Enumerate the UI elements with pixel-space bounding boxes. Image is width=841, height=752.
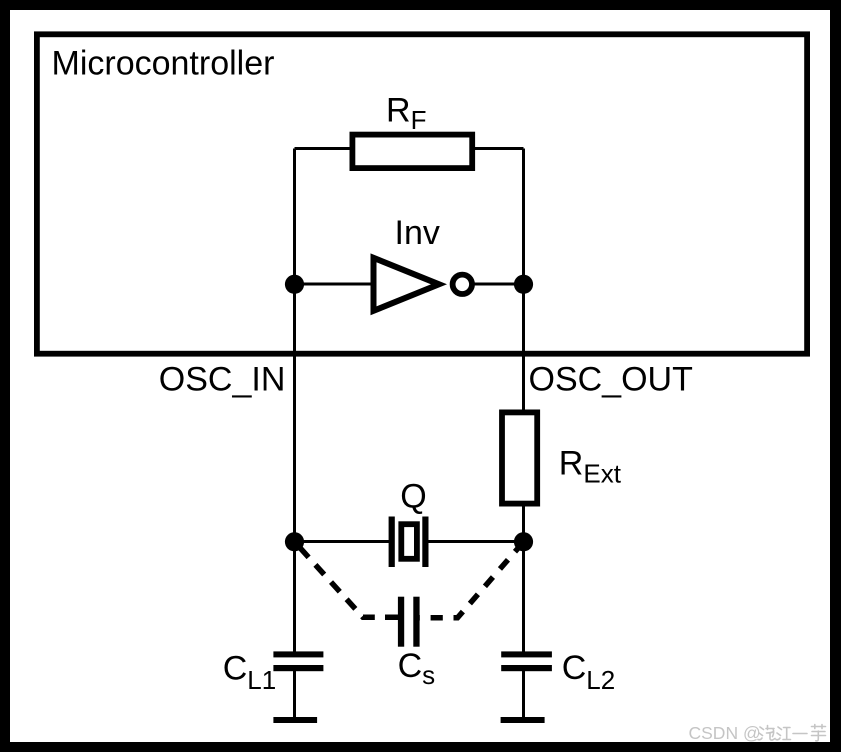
node: OSC_IN external junction (285, 532, 304, 551)
wire: CL1 to ground (293, 671, 296, 718)
capacitor CS left plate (398, 597, 404, 647)
svg-text:CSDN @: CSDN @ (689, 723, 761, 743)
wire: inverter output (474, 283, 524, 286)
node: OSC_OUT internal junction (514, 275, 533, 294)
watermark CJK glyphs (758, 725, 826, 741)
capacitor CL1 bottom plate (273, 665, 323, 671)
wire: RF loop top left (295, 147, 353, 150)
svg-text:Q: Q (400, 478, 426, 516)
inverter Inv triangle (374, 258, 440, 311)
wire: left rail OSC_IN (RF loop to CL1) (293, 149, 296, 652)
capacitor CL1 top plate (273, 651, 323, 657)
microcontroller box (37, 34, 807, 353)
svg-text:OSC_OUT: OSC_OUT (529, 360, 693, 398)
dashed stray-capacitance link left (297, 545, 398, 618)
node: OSC_OUT external junction (514, 532, 533, 551)
wire: node to crystal left (295, 540, 390, 543)
crystal Q left plate (389, 517, 395, 568)
resistor RExt (502, 412, 537, 503)
crystal Q body (401, 524, 417, 559)
resistor RF (352, 135, 472, 169)
wire: right rail upper (to RExt) (522, 149, 525, 412)
ground: CL1 (273, 717, 317, 723)
svg-text:OSC_IN: OSC_IN (159, 360, 286, 398)
wire: RF loop top right (473, 147, 524, 150)
capacitor CL2 top plate (501, 651, 552, 657)
dashed stray-capacitance link right (420, 543, 523, 618)
wire: right rail lower (RExt to CL2) (522, 505, 525, 652)
ground: CL2 (501, 717, 545, 723)
wire: crystal to node right (428, 540, 524, 543)
capacitor CL2 bottom plate (501, 665, 552, 671)
svg-text:Microcontroller: Microcontroller (52, 45, 275, 83)
crystal Q right plate (422, 517, 428, 568)
wire: CL2 to ground (522, 671, 525, 718)
svg-text:Inv: Inv (395, 214, 440, 252)
wire: inverter input (295, 283, 377, 286)
inverter output bubble (453, 275, 472, 294)
capacitor CS right plate (413, 597, 419, 647)
node: OSC_IN internal junction (285, 275, 304, 294)
